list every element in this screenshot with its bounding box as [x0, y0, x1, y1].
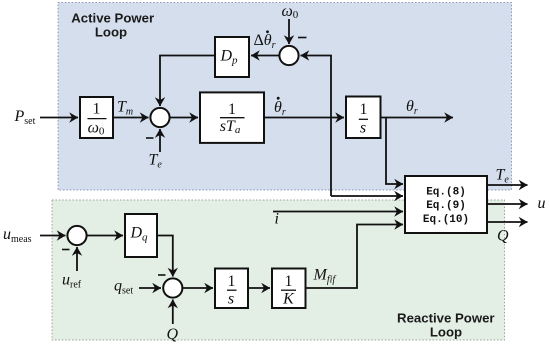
wire: omega0 down into S2: [288, 19, 290, 44]
minus sign at S4 top-left: [158, 274, 166, 276]
block 1/w0: [80, 97, 113, 138]
block 1/s bottom: [215, 269, 248, 309]
wire: S1 to 1/sTa: [170, 117, 198, 119]
summing junction S3: [67, 226, 86, 245]
block D_p: [215, 37, 249, 77]
block 1/K: [272, 269, 306, 309]
svg-text:Loop: Loop: [95, 25, 127, 40]
wire: Q output: [487, 221, 528, 223]
svg-text:s: s: [228, 291, 234, 308]
wire: T_e output: [487, 184, 528, 186]
block Eq: [405, 176, 487, 233]
wire: theta_r output: [381, 117, 454, 119]
wire: D_p output to S1 top: [160, 56, 215, 107]
wire: theta_dot_r from 1/sTa to 1/s: [264, 117, 344, 119]
svg-text:umeas: umeas: [3, 226, 32, 245]
svg-text:s: s: [360, 120, 366, 137]
wire: branch x=386 down to Eq input1: [386, 118, 403, 185]
wire: S3 to D_q: [87, 235, 123, 237]
summing junction S2: [279, 46, 298, 65]
svg-text:1: 1: [228, 101, 236, 118]
wire: M_fif to Eq input4: [306, 225, 404, 289]
svg-text:Q: Q: [167, 326, 179, 343]
wire: T_m: [113, 117, 149, 119]
svg-text:1: 1: [228, 273, 236, 290]
svg-text:K: K: [282, 291, 295, 308]
wire: D_q down into S4: [157, 236, 173, 277]
svg-text:Eq.(8): Eq.(8): [426, 187, 466, 199]
svg-text:Q: Q: [497, 228, 509, 245]
svg-text:u: u: [538, 195, 546, 212]
reactive power loop region: [52, 200, 505, 340]
svg-text:i: i: [275, 211, 279, 228]
svg-text:Pset: Pset: [14, 108, 36, 127]
block 1/sTa: [200, 92, 264, 142]
wire: branch x=331 up to S2 and down to Eq input2: [301, 56, 332, 197]
active power loop region: [58, 3, 512, 191]
minus sign at S3 bottom-left: [62, 249, 70, 251]
wire: q_set input: [139, 287, 161, 289]
block 1/s top: [346, 97, 381, 139]
svg-text:Eq.(10): Eq.(10): [423, 214, 469, 226]
wire: u_ref up into S3: [76, 247, 78, 271]
svg-text:Loop: Loop: [430, 325, 462, 340]
svg-text:Reactive Power: Reactive Power: [397, 311, 495, 326]
svg-text:1: 1: [285, 273, 293, 290]
svg-text:Eq.(9): Eq.(9): [426, 200, 466, 212]
summing junction S1: [150, 108, 169, 127]
wire: S2 to D_p: [251, 55, 279, 57]
svg-text:1: 1: [93, 101, 101, 118]
wire: S4 to 1/s bottom: [182, 287, 213, 289]
wire: i bar input: [273, 211, 403, 213]
wire: T_e up into S1: [159, 129, 161, 152]
wire: P_set input: [40, 117, 78, 119]
minus sign at S2 top: [298, 37, 307, 39]
wire: u output: [487, 203, 528, 205]
wire: u_meas input: [40, 235, 66, 237]
svg-text:1: 1: [360, 101, 368, 118]
svg-text:Active Power: Active Power: [71, 10, 154, 25]
block D_q: [125, 214, 157, 257]
wire: Q up into S4: [172, 300, 174, 325]
wire: 1/s to 1/K: [248, 287, 270, 289]
summing junction S4: [163, 278, 182, 297]
minus sign at S1 bottom: [146, 137, 154, 139]
